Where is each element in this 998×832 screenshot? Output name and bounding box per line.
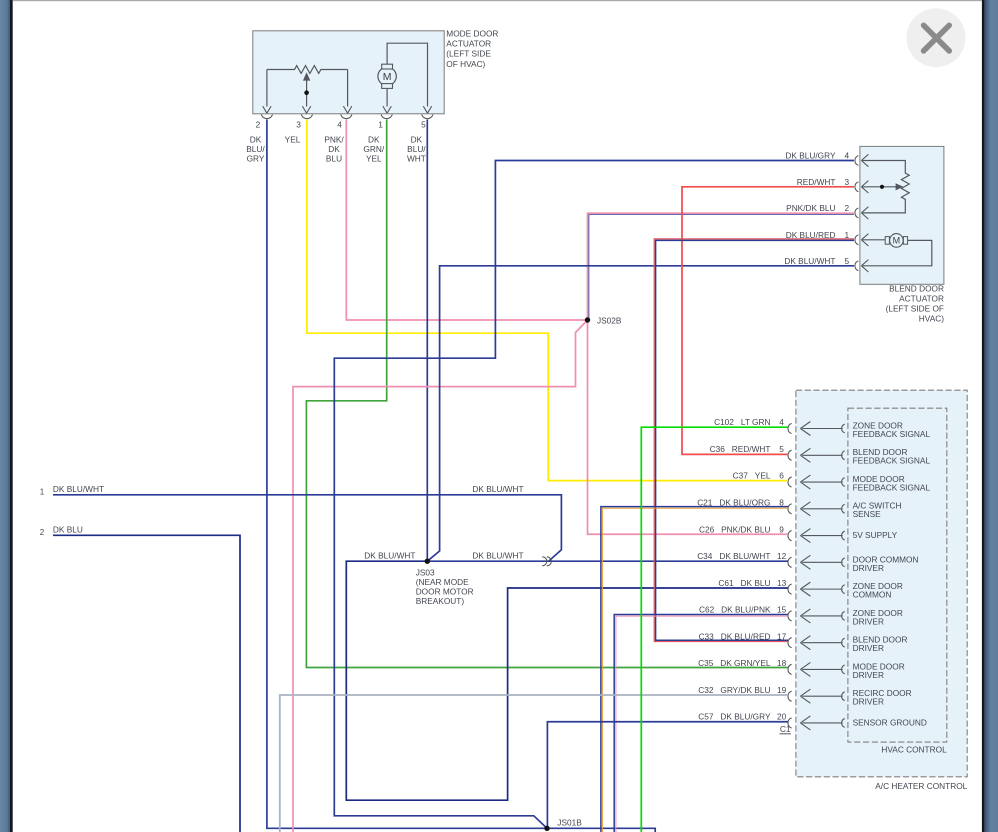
blend pin number 2 bbox=[844, 203, 849, 213]
hvac pin 18 label C35 DK GRN/YEL bbox=[698, 658, 787, 668]
hvac pin 8 description A/C SWITCH SENSE bbox=[853, 501, 902, 520]
mode wire label DK BLU/ WHT bbox=[407, 135, 426, 164]
hvac pin 17 description BLEND DOOR DRIVER bbox=[853, 635, 908, 654]
svg-text:M: M bbox=[893, 236, 901, 246]
wire PNK/DK BLU node JS02B branch to bottom edge bbox=[293, 320, 588, 832]
hvac pin 6 connector arc (inner) bbox=[842, 478, 845, 487]
svg-text:MODE DOOR: MODE DOOR bbox=[446, 28, 498, 38]
blend pin arrow 5 bbox=[861, 260, 868, 272]
label JS02B bbox=[597, 316, 622, 326]
svg-text:C102 LT GRN: C102 LT GRN bbox=[714, 417, 770, 427]
node JS02B bbox=[585, 317, 590, 322]
svg-text:C36 RED/WHT: C36 RED/WHT bbox=[710, 444, 771, 454]
hvac pin 5 label C36 RED/WHT bbox=[710, 444, 785, 454]
svg-text:15: 15 bbox=[777, 605, 787, 615]
hvac pin 9 label C26 PNK/DK BLU bbox=[699, 524, 784, 534]
svg-text:M: M bbox=[383, 71, 392, 83]
wire DK BLU/PNK HVAC C62 pin 15 to bottom edge bbox=[614, 614, 788, 832]
inline connector arcs on C34 wire bbox=[542, 557, 551, 566]
hvac pin 4 label C102 LT GRN bbox=[714, 417, 784, 427]
wire DK BLU/WHT node JS03 to HVAC C34 pin 12 bbox=[427, 560, 788, 562]
svg-text:FEEDBACK SIGNAL: FEEDBACK SIGNAL bbox=[853, 429, 931, 439]
svg-text:DK BLU/WHT: DK BLU/WHT bbox=[53, 484, 104, 494]
svg-text:PNK/: PNK/ bbox=[324, 135, 344, 145]
svg-text:FEEDBACK SIGNAL: FEEDBACK SIGNAL bbox=[853, 482, 931, 492]
svg-text:(LEFT SIDE: (LEFT SIDE bbox=[446, 49, 491, 59]
svg-text:JS01B: JS01B bbox=[557, 817, 582, 827]
svg-text:ACTUATOR: ACTUATOR bbox=[446, 38, 491, 48]
svg-text:SENSE: SENSE bbox=[853, 509, 882, 519]
svg-text:9: 9 bbox=[779, 524, 784, 534]
wire PNK/DK BLU node JS02B down to HVAC C26 pin 9 bbox=[588, 320, 789, 534]
svg-text:COMMON: COMMON bbox=[853, 590, 892, 600]
svg-text:20: 20 bbox=[777, 712, 787, 722]
svg-text:DK BLU/GRY: DK BLU/GRY bbox=[785, 151, 836, 161]
svg-text:YEL: YEL bbox=[285, 135, 301, 145]
hvac pin 13 arrow bbox=[800, 582, 842, 596]
svg-text:OF HVAC): OF HVAC) bbox=[446, 59, 485, 69]
svg-text:5: 5 bbox=[779, 444, 784, 454]
wire DK BLU/GRY blend pin 4 down to JS01B bbox=[334, 161, 854, 829]
mode wire label PNK/ DK BLU bbox=[324, 135, 344, 164]
hvac pin 6 arrow bbox=[800, 475, 842, 489]
svg-text:C34 DK BLU/WHT: C34 DK BLU/WHT bbox=[697, 551, 770, 561]
svg-text:2: 2 bbox=[40, 528, 45, 537]
mode connector arc pin 3 bbox=[301, 115, 312, 119]
wire DK BLU/ORG orange tracer bbox=[602, 508, 788, 832]
mode pin number 2 bbox=[256, 120, 261, 130]
label wire 1 bbox=[40, 484, 104, 497]
svg-text:(LEFT SIDE OF: (LEFT SIDE OF bbox=[886, 304, 944, 314]
hvac pin 18 connector arc (inner) bbox=[842, 665, 845, 674]
wiper arrow of R-mode bbox=[302, 72, 310, 113]
hvac pin 19 arrow bbox=[800, 689, 842, 703]
svg-text:ACTUATOR: ACTUATOR bbox=[899, 293, 944, 303]
svg-text:HVAC): HVAC) bbox=[919, 314, 944, 324]
svg-text:DK BLU/WHT: DK BLU/WHT bbox=[472, 484, 523, 494]
a/c heater control outer dashed box bbox=[796, 390, 967, 777]
blend pin number 1 bbox=[844, 230, 849, 240]
svg-text:DK: DK bbox=[328, 144, 340, 154]
hvac control inner dashed box bbox=[848, 408, 947, 742]
hvac pin 12 connector arc (inner) bbox=[842, 558, 845, 567]
wire DK BLU/ORG HVAC C21 pin 8 to bottom edge bbox=[601, 507, 788, 832]
svg-text:C62 DK BLU/PNK: C62 DK BLU/PNK bbox=[699, 605, 771, 615]
svg-text:HVAC CONTROL: HVAC CONTROL bbox=[881, 744, 947, 754]
svg-text:DK: DK bbox=[368, 135, 380, 145]
hvac pin 6 label C37 YEL bbox=[733, 471, 785, 481]
wire PNK/DK BLU mode pin 4 to node JS02B bbox=[346, 120, 586, 321]
svg-text:5: 5 bbox=[844, 256, 849, 266]
hvac pin 8 connector arc (outer) bbox=[788, 504, 792, 514]
motor M-blend bbox=[885, 234, 907, 248]
left sidebar bar bbox=[0, 0, 10, 832]
hvac pin 5 description BLEND DOOR FEEDBACK SIGNAL bbox=[853, 447, 931, 466]
hvac pin 13 connector arc (outer) bbox=[788, 584, 792, 594]
node JS01B bbox=[544, 826, 549, 831]
hvac pin 6 description MODE DOOR FEEDBACK SIGNAL bbox=[853, 474, 931, 493]
blend pin arrow 4 bbox=[861, 154, 868, 166]
blend wire label DK BLU/GRY bbox=[785, 151, 836, 161]
hvac pin 17 connector arc (outer) bbox=[788, 638, 792, 648]
svg-text:1: 1 bbox=[378, 120, 383, 130]
mode connector arc pin 1 bbox=[381, 115, 392, 119]
hvac pin 20 connector arc (inner) bbox=[842, 719, 845, 728]
hvac pin 15 connector arc (outer) bbox=[788, 611, 792, 621]
svg-text:4: 4 bbox=[844, 151, 849, 161]
junction dot on wiper bbox=[304, 90, 309, 95]
svg-text:DK BLU/WHT: DK BLU/WHT bbox=[472, 550, 523, 560]
svg-text:BLU/: BLU/ bbox=[246, 144, 265, 154]
mode pin number 4 bbox=[337, 120, 342, 130]
label wire 2 bbox=[40, 525, 83, 538]
hvac pin 12 description DOOR COMMON DRIVER bbox=[853, 554, 919, 573]
wire YEL mode pin 3 to HVAC C37 pin 6 bbox=[307, 120, 788, 481]
hvac pin 19 connector arc (inner) bbox=[842, 692, 845, 701]
label BLEND DOOR ACTUATOR (LEFT SIDE OF HVAC) bbox=[886, 283, 945, 323]
hvac pin 15 arrow bbox=[800, 609, 842, 623]
wire LT GRN HVAC C102 pin 4 to bottom edge bbox=[641, 427, 788, 832]
blend connector arc pin 5 bbox=[855, 261, 858, 271]
mode connector arc pin 5 bbox=[422, 115, 433, 119]
hvac pin 19 description RECIRC DOOR DRIVER bbox=[853, 688, 912, 707]
svg-text:DRIVER: DRIVER bbox=[853, 563, 884, 573]
wire PNK/DK BLU node JS02B up to blend pin 2 bbox=[588, 213, 855, 320]
hvac pin 8 connector arc (inner) bbox=[842, 504, 845, 513]
svg-text:C26 PNK/DK BLU: C26 PNK/DK BLU bbox=[699, 524, 770, 534]
mode pin number 3 bbox=[296, 120, 301, 130]
hvac pin 5 arrow bbox=[800, 448, 842, 462]
right sidebar bar bbox=[985, 0, 998, 832]
hvac pin 12 connector arc (outer) bbox=[788, 557, 792, 567]
hvac pin 6 connector arc (outer) bbox=[788, 477, 792, 487]
hvac pin 20 arrow bbox=[800, 716, 842, 730]
svg-text:C35 DK GRN/YEL: C35 DK GRN/YEL bbox=[698, 658, 771, 668]
svg-text:5V SUPPLY: 5V SUPPLY bbox=[853, 530, 898, 540]
right black border line bbox=[982, 0, 985, 832]
blend internal wiring pins 4-2 + resistor bbox=[862, 161, 909, 213]
motor M-mode bbox=[378, 64, 396, 88]
hvac pin 15 label C62 DK BLU/PNK bbox=[699, 605, 787, 615]
svg-text:12: 12 bbox=[777, 551, 787, 561]
wire DK BLU/WHT mode pin 5 down to node JS03 bbox=[426, 120, 428, 562]
mode pin number 1 bbox=[378, 120, 383, 130]
label A/C HEATER CONTROL bbox=[875, 781, 967, 791]
hvac pin 5 connector arc (outer) bbox=[788, 450, 792, 460]
svg-text:2: 2 bbox=[256, 120, 261, 130]
hvac pin 20 connector arc (outer) bbox=[788, 718, 792, 728]
blend motor wiring pins 1-5 bbox=[862, 240, 932, 266]
label DK BLU/WHT above wire 1 corner bbox=[472, 484, 523, 494]
svg-text:GRN/: GRN/ bbox=[363, 144, 384, 154]
blend connector arc pin 4 bbox=[855, 156, 858, 166]
svg-text:4: 4 bbox=[779, 417, 784, 427]
blend pin arrow 2 bbox=[861, 207, 868, 219]
svg-text:BLEND DOOR: BLEND DOOR bbox=[889, 283, 944, 293]
svg-text:BLU/: BLU/ bbox=[407, 144, 426, 154]
blend wire label DK BLU/RED bbox=[786, 230, 836, 240]
svg-text:DRIVER: DRIVER bbox=[853, 616, 884, 626]
svg-text:DRIVER: DRIVER bbox=[853, 643, 884, 653]
hvac pin 17 connector arc (inner) bbox=[842, 638, 845, 647]
svg-text:C61 DK BLU: C61 DK BLU bbox=[718, 578, 770, 588]
label JS01B bbox=[557, 817, 582, 827]
svg-text:C32 GRY/DK BLU: C32 GRY/DK BLU bbox=[698, 685, 770, 695]
svg-text:19: 19 bbox=[777, 685, 787, 695]
svg-text:FEEDBACK SIGNAL: FEEDBACK SIGNAL bbox=[853, 456, 931, 466]
blend wire label DK BLU/WHT bbox=[784, 256, 835, 266]
hvac pin 5 connector arc (inner) bbox=[842, 451, 845, 460]
label DK BLU/WHT left of JS03 bbox=[364, 550, 415, 560]
svg-text:JS02B: JS02B bbox=[597, 316, 622, 326]
svg-text:2: 2 bbox=[844, 203, 849, 213]
blend connector arc pin 3 bbox=[855, 182, 858, 192]
mode wire label DK BLU/ GRY bbox=[246, 135, 265, 164]
svg-text:C57 DK BLU/GRY: C57 DK BLU/GRY bbox=[698, 712, 771, 722]
svg-text:18: 18 bbox=[777, 658, 787, 668]
close button bbox=[907, 8, 966, 67]
mode wire label YEL bbox=[285, 135, 301, 145]
hvac pin 9 description 5V SUPPLY bbox=[853, 530, 898, 540]
motor M-mode wiring bbox=[383, 43, 432, 113]
hvac pin 4 connector arc (outer) bbox=[788, 423, 792, 433]
svg-text:A/C HEATER CONTROL: A/C HEATER CONTROL bbox=[875, 781, 967, 791]
hvac pin 9 connector arc (inner) bbox=[842, 531, 845, 540]
hvac pin 18 connector arc (outer) bbox=[788, 664, 792, 674]
svg-text:SENSOR GROUND: SENSOR GROUND bbox=[853, 717, 927, 727]
blend connector arc pin 1 bbox=[855, 235, 858, 245]
resistor R-mode (potentiometer) bbox=[263, 66, 352, 114]
wire DK BLU/PNK pink tracer bbox=[616, 616, 788, 832]
hvac pin 20 description SENSOR GROUND bbox=[853, 717, 927, 727]
blend pin arrow 1 bbox=[861, 234, 868, 246]
blend pin number 3 bbox=[844, 177, 849, 187]
blend pin number 4 bbox=[844, 151, 849, 161]
wire RED/WHT blend pin 3 to HVAC C36 pin 5 bbox=[682, 187, 854, 455]
hvac pin 4 arrow bbox=[800, 422, 842, 436]
hvac pin 20 label C57 DK BLU/GRY bbox=[698, 712, 786, 722]
blend wire label RED/WHT bbox=[797, 177, 836, 187]
node JS03 bbox=[425, 559, 430, 564]
hvac pin 15 description ZONE DOOR DRIVER bbox=[853, 608, 903, 627]
wire DK BLU/GRY mode pin 2 down to JS01B bus bbox=[267, 120, 655, 832]
hvac pin 12 label C34 DK BLU/WHT bbox=[697, 551, 786, 561]
mode connector arc pin 4 bbox=[341, 115, 352, 119]
hvac pin 17 label C33 DK BLU/RED bbox=[699, 631, 787, 641]
svg-text:1: 1 bbox=[40, 488, 45, 497]
wire 1 DK BLU/WHT from left edge to splice at JS03 bus bbox=[53, 495, 561, 561]
svg-text:DRIVER: DRIVER bbox=[853, 670, 884, 680]
svg-text:5: 5 bbox=[421, 120, 426, 130]
svg-text:C1: C1 bbox=[780, 724, 791, 734]
wire DK BLU node JS03 to HVAC C61 pin 13 bbox=[346, 561, 788, 800]
svg-text:13: 13 bbox=[777, 578, 787, 588]
wire DK BLU/GRY HVAC C57 pin 20 to JS01B bbox=[547, 722, 788, 829]
hvac pin 4 description ZONE DOOR FEEDBACK SIGNAL bbox=[853, 420, 931, 439]
hvac pin 13 connector arc (inner) bbox=[842, 585, 845, 594]
svg-text:DK BLU/WHT: DK BLU/WHT bbox=[364, 550, 415, 560]
hvac pin 19 label C32 GRY/DK BLU bbox=[698, 685, 786, 695]
svg-text:YEL: YEL bbox=[366, 154, 382, 164]
top gray border line bbox=[13, 0, 982, 1]
hvac pin 9 connector arc (outer) bbox=[788, 530, 792, 540]
svg-text:DK BLU: DK BLU bbox=[53, 525, 83, 535]
mode connector arc pin 2 bbox=[261, 115, 272, 119]
label C1 (underlined) bbox=[780, 724, 791, 735]
wire DK BLU/WHT blend pin 5 to node JS03 bbox=[427, 266, 854, 561]
hvac pin 15 connector arc (inner) bbox=[842, 611, 845, 620]
junction dot on blend wiper bbox=[880, 185, 884, 189]
hvac pin 12 arrow bbox=[800, 555, 842, 569]
hvac pin 18 description MODE DOOR DRIVER bbox=[853, 661, 905, 680]
wire GRY/DK BLU HVAC C32 pin 19 to bottom edge bbox=[280, 695, 788, 832]
wire DK BLU/RED blend pin 1 to HVAC C33 pin 17 (red tracer) bbox=[654, 239, 854, 642]
hvac pin 9 arrow bbox=[800, 529, 842, 543]
svg-text:DK: DK bbox=[411, 135, 423, 145]
wire PNK/DK BLU navy tracer on blend pin 2 run bbox=[589, 215, 854, 320]
hvac pin 8 arrow bbox=[800, 502, 842, 516]
label JS03 (NEAR MODE DOOR MOTOR BREAKOUT) bbox=[416, 568, 474, 607]
mode wire label DK GRN/ YEL bbox=[363, 135, 384, 164]
svg-text:(NEAR MODE: (NEAR MODE bbox=[416, 577, 469, 587]
label DK BLU/WHT right of JS03 bbox=[472, 550, 523, 560]
hvac pin 8 label C21 DK BLU/ORG bbox=[697, 498, 784, 508]
svg-text:RED/WHT: RED/WHT bbox=[797, 177, 836, 187]
hvac pin 18 arrow bbox=[800, 662, 842, 676]
hvac pin 13 label C61 DK BLU bbox=[718, 578, 786, 588]
svg-text:DOOR MOTOR: DOOR MOTOR bbox=[416, 587, 474, 597]
blend wire label PNK/DK BLU bbox=[786, 203, 835, 213]
hvac pin 19 connector arc (outer) bbox=[788, 691, 792, 701]
svg-text:C37 YEL: C37 YEL bbox=[733, 471, 771, 481]
blend wiper arrow (pin 3) bbox=[862, 183, 903, 190]
label MODE DOOR ACTUATOR (LEFT SIDE OF HVAC) bbox=[446, 28, 498, 68]
svg-text:3: 3 bbox=[296, 120, 301, 130]
svg-text:PNK/DK BLU: PNK/DK BLU bbox=[786, 203, 835, 213]
svg-text:3: 3 bbox=[844, 177, 849, 187]
hvac pin 17 arrow bbox=[800, 636, 842, 650]
svg-text:WHT: WHT bbox=[407, 154, 426, 164]
svg-text:6: 6 bbox=[779, 471, 784, 481]
blend connector arc pin 2 bbox=[855, 208, 858, 218]
wire DK BLU/RED blend pin 1 to HVAC C33 pin 17 bbox=[656, 240, 854, 640]
blend pin arrow 3 bbox=[861, 181, 868, 193]
blend door actuator box bbox=[860, 146, 944, 284]
left black border line bbox=[10, 0, 13, 832]
svg-text:DRIVER: DRIVER bbox=[853, 697, 884, 707]
svg-text:GRY: GRY bbox=[247, 154, 265, 164]
hvac pin 13 description ZONE DOOR COMMON bbox=[853, 581, 903, 600]
svg-text:DK: DK bbox=[250, 135, 262, 145]
svg-text:4: 4 bbox=[337, 120, 342, 130]
blend pin number 5 bbox=[844, 256, 849, 266]
wire DK GRN/YEL mode pin 1 to HVAC C35 pin 18 bbox=[306, 120, 788, 668]
svg-text:BREAKOUT): BREAKOUT) bbox=[416, 596, 465, 606]
wire 2 DK BLU from left edge to bottom edge bbox=[53, 535, 240, 832]
label HVAC CONTROL bbox=[881, 744, 947, 754]
mode door actuator box bbox=[253, 31, 444, 114]
mode pin number 5 bbox=[421, 120, 426, 130]
svg-text:JS03: JS03 bbox=[416, 568, 435, 578]
hvac pin 4 connector arc (inner) bbox=[842, 424, 845, 433]
svg-text:DK BLU/WHT: DK BLU/WHT bbox=[784, 256, 835, 266]
svg-text:BLU: BLU bbox=[326, 154, 342, 164]
